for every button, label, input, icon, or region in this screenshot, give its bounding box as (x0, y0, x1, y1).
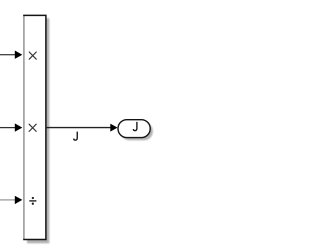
wire input 1 (0, 54, 15, 56)
wire input 3 (0, 199, 15, 201)
multiply symbol port 1 (29, 52, 36, 59)
wire input 2 (0, 127, 15, 129)
product block left edge (23, 15, 25, 239)
arrowhead output (110, 124, 117, 132)
arrowhead input 3 (15, 196, 22, 204)
wire output J (46, 127, 111, 129)
product block shadow (27, 18, 49, 243)
divide symbol port 3 (29, 197, 36, 205)
goto block G1 (118, 120, 150, 138)
arrowhead input 2 (15, 123, 22, 131)
product block U1 body (24, 15, 46, 239)
arrowhead input 1 (15, 51, 22, 59)
goto tag text J (133, 122, 137, 131)
product block top/right/bottom border (23, 15, 46, 239)
multiply symbol port 2 (29, 124, 36, 131)
signal label J (74, 132, 78, 141)
goto block shadow (121, 122, 153, 140)
